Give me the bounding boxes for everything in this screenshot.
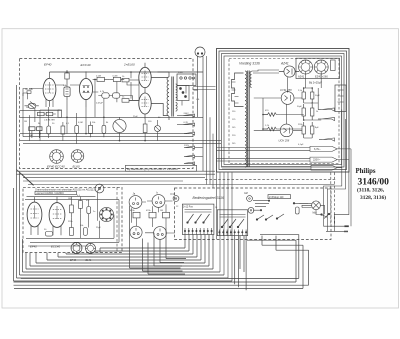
wire v59.8 (40, 110, 63, 141)
capacitor C3 dual (64, 83, 70, 101)
tube V4 EL60 lower (139, 92, 151, 119)
hum pot R13 (155, 126, 161, 132)
filter L.B. components (38, 112, 56, 121)
resistor R-a zigzag (263, 113, 280, 117)
bus loop 7 (30, 235, 209, 267)
svg-text:Bij aansluiting op 220–240V~ 3: Bij aansluiting op 220–240V~ 3146/00 (127, 167, 178, 171)
tube UY41 second (280, 88, 294, 105)
changer note line 1 (35, 189, 95, 192)
svg-text:ECC40: ECC40 (51, 244, 60, 248)
resistor R26 (149, 212, 156, 218)
resistor R11 (89, 122, 93, 138)
svg-text:GM: GM (244, 193, 248, 195)
wire v145.1 cathodes (144, 119, 146, 141)
loudspeaker terminal box (177, 74, 196, 106)
resistor R21 (79, 197, 83, 214)
svg-text:220V: 220V (184, 145, 190, 147)
resistor R10 (61, 122, 65, 138)
svg-text:25µF: 25µF (96, 227, 102, 229)
wires motor area (299, 203, 324, 214)
svg-text:EZ40 +260: EZ40 +260 (315, 74, 328, 78)
wire v34.9 (34, 108, 36, 123)
wire screen rail (127, 82, 139, 85)
power unit dashed boundary (229, 59, 339, 164)
connector tag t6 (184, 162, 195, 165)
input terminal RI-AB (26, 87, 33, 93)
mech link dashed v1 (330, 173, 332, 226)
tube V6 (49, 197, 65, 236)
bus loop 5 (47, 235, 201, 261)
jack wires (132, 201, 175, 233)
left corner hooks (17, 170, 34, 186)
wire v131 (130, 72, 132, 99)
svg-text:1M: 1M (24, 121, 27, 123)
svg-text:EF40: EF40 (30, 244, 37, 248)
cable run earth (222, 165, 342, 170)
bus loop 2 (95, 235, 189, 253)
resistor R6 (122, 78, 139, 82)
svg-text:6,3V~: 6,3V~ (314, 148, 321, 151)
wire h184.5 (28, 184, 335, 186)
wire bus h133.5 (20, 133, 187, 135)
wire v157.5 (157, 72, 159, 141)
wire h181 (23, 179, 336, 181)
switch contacts right (253, 200, 308, 220)
svg-text:Bij 2×25µF: Bij 2×25µF (309, 81, 322, 85)
switch bank S2 (217, 210, 247, 236)
pick-up plug P1 (195, 47, 205, 57)
title Philips (356, 168, 376, 175)
coupling capacitor C2 (65, 70, 69, 83)
title 3146/00 (358, 176, 390, 187)
svg-text:Voeding 3136: Voeding 3136 (239, 61, 260, 65)
svg-text:25µF: 25µF (133, 116, 139, 118)
svg-text:EF40: EF40 (70, 259, 77, 262)
capacitor C8 (102, 122, 106, 138)
socket labels (47, 165, 80, 169)
wire v116.9 (116, 82, 118, 103)
riser x240 (235, 236, 262, 291)
capacitor C22 (84, 228, 88, 236)
resistor R27 (163, 212, 170, 218)
right riser w348 (350, 149, 352, 226)
socket view V7 (99, 207, 113, 221)
svg-text:3128, 3136): 3128, 3136) (360, 194, 386, 201)
capacitor C30 (296, 207, 300, 214)
wire v76.7 (76, 113, 78, 144)
NTC resistor R12 (143, 119, 147, 137)
mains switch S3 (321, 213, 330, 218)
power bottom verticals (210, 117, 213, 188)
svg-text:L.B.FILTER: L.B.FILTER (44, 119, 55, 121)
changer unit boundary (dashed) (23, 187, 122, 252)
wire input to EF40 grid (23, 89, 43, 97)
resistor R-d (311, 104, 314, 120)
label ECC40 (81, 63, 91, 67)
svg-text:RI-AB: RI-AB (26, 87, 33, 91)
capacitor C5 (112, 93, 123, 98)
cathode resistor R9 (29, 127, 42, 138)
svg-text:0,5M: 0,5M (78, 122, 83, 124)
svg-text:EL41: EL41 (86, 259, 92, 262)
wire top rail (50, 71, 204, 73)
svg-text:UY41 258: UY41 258 (280, 88, 292, 92)
wire bus h117 (20, 116, 203, 118)
socket view V9 below (86, 243, 96, 253)
changer tube labels (30, 244, 60, 248)
label box right (268, 195, 291, 199)
tag labels (184, 113, 190, 147)
mains filter box on border (335, 85, 346, 112)
svg-text:3-4Ω: 3-4Ω (178, 72, 183, 74)
label Voeding 3136 (239, 61, 260, 65)
wire splitter to EL60 grids (93, 92, 139, 101)
svg-text:0,1µF: 0,1µF (298, 144, 304, 146)
svg-text:2×EL60: 2×EL60 (123, 62, 135, 66)
tag 6.3V (318, 117, 335, 120)
power junction dots (262, 87, 313, 130)
bus line 13 (14, 240, 297, 282)
changer vertical wires (71, 193, 119, 243)
capacitor C4 (98, 93, 112, 98)
wire v29.5 (23, 93, 30, 141)
wire v48.7 (48, 107, 50, 122)
note box 220-240V (126, 165, 197, 171)
bus loop 6 (36, 235, 205, 264)
wire anode rail y79 (93, 78, 139, 81)
power drop wires (217, 173, 233, 282)
power wiring mesh (254, 74, 321, 138)
mains cord lower (326, 231, 348, 233)
wire amp to power a (193, 87, 216, 90)
resistor R7 (122, 99, 139, 103)
connector K1 (171, 194, 179, 202)
right riser w345 (334, 160, 349, 232)
wire h171 (17, 170, 216, 172)
power unit border (217, 49, 350, 173)
changer wire rails lower (26, 238, 119, 246)
motor M (312, 201, 321, 214)
connector tag t3 (184, 132, 195, 135)
connector K2 (244, 193, 252, 201)
capacitor C7 (75, 122, 79, 138)
cathode capacitor C6 (47, 122, 51, 138)
connector tag t5 (184, 155, 203, 158)
jack J4 (154, 227, 167, 240)
bus inner rect (21, 235, 299, 279)
pickup connector (95, 184, 104, 193)
resistor R-b zigzag (263, 127, 280, 131)
label Bedieningsdeel 3116 (193, 196, 225, 200)
note 2x25uF (309, 81, 322, 85)
HT tag +260V (318, 108, 335, 111)
component labels cluster a (63, 75, 125, 104)
amplifier unit boundary (dashed) (20, 59, 194, 169)
resistor R5 (110, 77, 124, 81)
subtitle types (357, 187, 386, 201)
svg-text:UCH 258: UCH 258 (279, 138, 290, 142)
svg-text:ECC40: ECC40 (81, 63, 91, 67)
connector tag t1 (177, 114, 195, 117)
tube UCH circle lower (279, 124, 293, 142)
tone pot R8 (113, 117, 126, 135)
bus loop 1 (100, 235, 185, 253)
tube V1 EF40 (43, 72, 56, 107)
svg-text:AZ41: AZ41 (280, 62, 289, 66)
switch bank S1 (182, 204, 214, 234)
wire transformer to AZ41 (252, 70, 279, 73)
connector tag t4 (184, 146, 203, 149)
mains transformer T1 (245, 71, 252, 168)
svg-text:0,1M: 0,1M (96, 75, 101, 77)
capacitor C-f (302, 122, 305, 138)
socket view V8 below (71, 243, 82, 254)
wire v95 (94, 79, 96, 117)
svg-text:2×12 Pos: 2×12 Pos (183, 205, 194, 208)
resistor R-e (311, 122, 314, 138)
changer note box (35, 191, 77, 195)
socket view EF40/ECC40 (50, 150, 64, 164)
wire bus h136.5 (23, 136, 193, 138)
jack J2 (152, 191, 165, 208)
plug drop right (206, 56, 208, 185)
svg-text:EF40 ECC40: EF40 ECC40 (47, 165, 65, 169)
bus line 14 (14, 236, 309, 286)
label EF40 (44, 62, 52, 66)
capacitor C21 (45, 232, 52, 237)
svg-text:50µF: 50µF (297, 106, 303, 108)
jack J1 (129, 192, 142, 209)
grid capacitor C1 (29, 102, 35, 109)
svg-text:3146/00: 3146/00 (358, 176, 390, 187)
svg-text:2M: 2M (26, 107, 29, 109)
bus loop 12 (14, 188, 233, 281)
bus loop 9 (23, 239, 221, 272)
resistor R22 (70, 228, 74, 236)
voltage selector S-V (232, 73, 244, 107)
svg-text:260V: 260V (184, 113, 190, 115)
wire EL60 anodes to transformer (151, 78, 167, 116)
tube V5 (27, 197, 42, 235)
cable run 6.3V~ (217, 146, 352, 151)
label AZ41 (280, 62, 289, 66)
wire h174 (17, 173, 216, 175)
svg-text:0,47µF: 0,47µF (96, 103, 104, 105)
junction dots amp (39, 71, 146, 141)
jack drop wires (130, 206, 187, 275)
svg-text:6,3V: 6,3V (184, 122, 189, 124)
resistor R20 (70, 200, 74, 218)
svg-text:Bedieningsdeel 3116: Bedieningsdeel 3116 (193, 196, 225, 200)
svg-text:Philips: Philips (356, 168, 376, 175)
svg-text:L.S.: L.S. (196, 99, 200, 101)
svg-text:2×Pickup 110: 2×Pickup 110 (269, 196, 284, 199)
tag heater (319, 138, 335, 141)
wire v139 EL60 grids (138, 80, 140, 100)
bus loop 10 (20, 173, 225, 276)
resistor R-c (302, 104, 305, 120)
socket box AZ41/UY41 (296, 58, 340, 78)
socket view EL60 (71, 150, 84, 163)
wire anode EF40 to grid ECC40 (56, 84, 80, 86)
wire v86 ECC cathode (85, 108, 87, 134)
connector tag t2 (177, 123, 195, 126)
tube V3 EL60 upper (139, 63, 151, 92)
cable run 110V~ (217, 157, 349, 162)
wire bus h143.5 (23, 143, 221, 145)
filter capacitor C-e2 (311, 88, 314, 103)
resistor R25 (133, 212, 140, 218)
svg-text:220V~: 220V~ (313, 159, 321, 162)
svg-text:50µF: 50µF (315, 95, 321, 97)
filter capacitor C-e1 (302, 88, 305, 103)
resistor R3 (58, 110, 62, 117)
svg-text:AZ41: AZ41 (298, 74, 305, 78)
connector K3 (248, 207, 254, 213)
bus loop 4 (58, 235, 197, 258)
control unit boundary (dashed) (175, 188, 332, 240)
right riser w341 (327, 119, 345, 231)
svg-text:element AG3011 / AG3016: element AG3011 / AG3016 (37, 192, 65, 195)
volume pot R2 (25, 103, 39, 108)
label 2xEL60 (123, 62, 135, 66)
mech link dashed v2 (334, 173, 336, 226)
wire plug to amp (194, 57, 204, 172)
wire v23 (22, 93, 24, 137)
svg-text:EL60: EL60 (73, 165, 80, 169)
svg-text:(3118, 3126,: (3118, 3126, (357, 187, 385, 194)
right riser w336 (324, 110, 342, 227)
wire bus h110 (20, 109, 61, 111)
wire v119.5 pot (119, 135, 121, 141)
wire v40 (39, 110, 41, 140)
bus loop 3 (66, 235, 193, 255)
svg-text:1M: 1M (160, 210, 163, 212)
small value labels sprinkle (24, 72, 321, 231)
wire bus h140.5 (20, 140, 221, 142)
wire h177.5 (23, 177, 205, 179)
resistor R4 0.1M (94, 77, 108, 81)
bus line 15 (14, 245, 303, 288)
rectifier AZ41 (279, 66, 299, 77)
wire v67 (66, 100, 68, 133)
wire v103.9 (103, 98, 105, 121)
socket labels below (70, 259, 92, 262)
svg-text:K M: K M (171, 194, 175, 196)
mains cord upper (331, 225, 349, 227)
svg-text:1M: 1M (68, 198, 71, 200)
svg-text:0,1M: 0,1M (113, 75, 118, 77)
jack J3 (130, 226, 142, 238)
output transformer T2 (158, 72, 178, 120)
bus loop 8 (26, 235, 213, 270)
bus loop 11 (17, 85, 229, 278)
svg-text:EF40: EF40 (44, 62, 52, 66)
capacitor C20 (87, 202, 91, 218)
changer wire top rail (25, 197, 119, 200)
tube V2 ECC40 (79, 71, 92, 107)
